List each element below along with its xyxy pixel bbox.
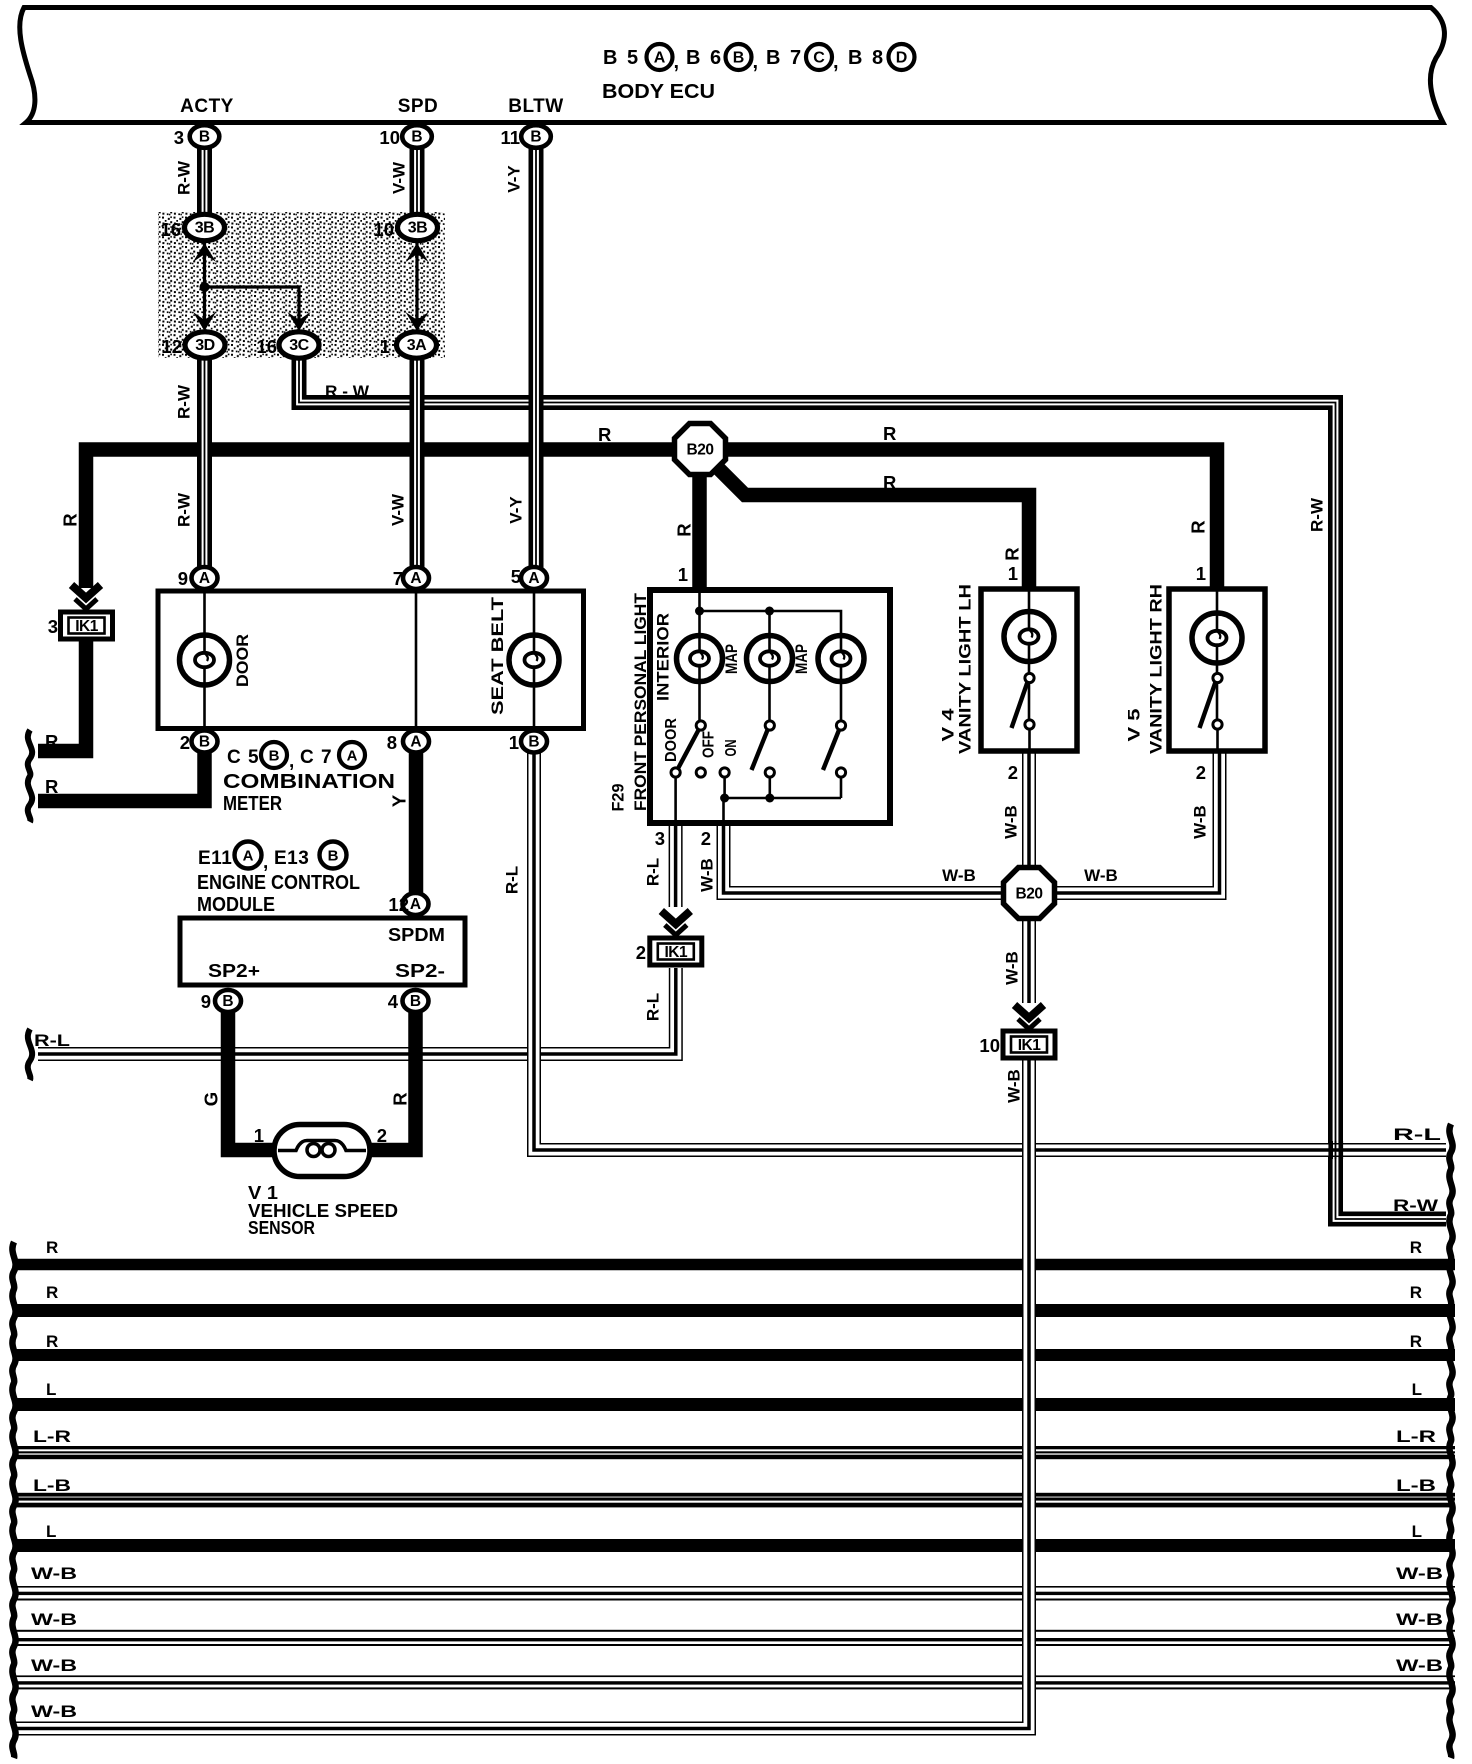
svg-text:,: , (753, 51, 759, 73)
vanity light RH box V5 (1169, 589, 1265, 751)
meter pin 9A (192, 567, 218, 589)
svg-text:OFF: OFF (701, 731, 718, 758)
svg-text:V-W: V-W (389, 493, 408, 526)
svg-text:SP2+: SP2+ (208, 961, 260, 981)
svg-text:R-W: R-W (175, 160, 194, 195)
svg-text:C: C (813, 50, 825, 67)
svg-text:V 1: V 1 (248, 1183, 278, 1203)
svg-text:L-R: L-R (1396, 1427, 1436, 1446)
svg-text:3B: 3B (195, 220, 214, 237)
svg-text:SENSOR: SENSOR (248, 1218, 315, 1238)
wire W-B from vanity RH pin 2 to B20 (1053, 748, 1220, 893)
svg-text:3D: 3D (195, 337, 214, 354)
svg-text:B: B (530, 129, 541, 146)
svg-text:MAP: MAP (722, 644, 741, 674)
connector 3B right (398, 214, 438, 240)
svg-text:A: A (410, 896, 421, 913)
svg-text:W-B: W-B (1002, 805, 1021, 839)
svg-text:W-B: W-B (1084, 866, 1118, 885)
svg-text:R-L: R-L (503, 866, 522, 894)
connector 3C (279, 332, 319, 358)
svg-text:L-B: L-B (33, 1476, 71, 1495)
svg-text:A: A (654, 50, 666, 67)
ECM pin 12A (403, 893, 429, 915)
svg-text:R-W: R-W (175, 384, 194, 419)
svg-text:DOOR: DOOR (663, 718, 680, 762)
switch DOOR/OFF/ON in F29 (696, 721, 705, 730)
relay block IK1 pin 3 (61, 612, 113, 639)
svg-text:G: G (201, 1092, 222, 1106)
svg-text:12: 12 (161, 336, 182, 357)
svg-text:3: 3 (655, 828, 665, 849)
svg-text:W-B: W-B (1003, 951, 1022, 985)
svg-text:3A: 3A (407, 337, 427, 354)
svg-text:B 7: B 7 (766, 47, 803, 69)
switch vanity LH (1025, 673, 1034, 682)
svg-text:16: 16 (160, 219, 181, 240)
svg-text:SPD: SPD (398, 96, 439, 117)
junction connector B20 lower (1004, 868, 1055, 919)
bus wire R 3 (15, 1349, 1455, 1361)
svg-text:SP2-: SP2- (395, 961, 445, 981)
thick wire R from ECM pin 4B to speed sensor pin 2 (366, 1010, 416, 1150)
svg-text:V 5: V 5 (1125, 709, 1144, 742)
svg-text:ENGINE CONTROL: ENGINE CONTROL (197, 872, 360, 894)
lamp SEAT BELT in combination meter (509, 635, 559, 685)
svg-text:A: A (347, 748, 358, 765)
svg-text:R: R (1410, 1283, 1422, 1302)
wire W-B from B20 through IK1(10) down and left to bottom edge (bus W-B 4) (1022, 916, 1036, 1003)
svg-text:R: R (598, 424, 611, 445)
svg-text:L: L (1412, 1522, 1422, 1541)
lamp MAP 1 (747, 636, 793, 682)
left edge cut mark at R-L exit (28, 1029, 32, 1080)
bus wire R 2 (15, 1304, 1455, 1317)
bus wire L 2 (15, 1539, 1455, 1552)
svg-text:W-B: W-B (1396, 1610, 1443, 1629)
svg-text:R: R (1410, 1238, 1422, 1257)
svg-text:C 5: C 5 (227, 747, 260, 768)
crossing patch R-W vertical at R-L (1328, 1141, 1333, 1159)
svg-text:7: 7 (393, 568, 403, 589)
svg-text:R-L: R-L (644, 858, 663, 886)
left edge cut marks bus area (12, 1242, 15, 1758)
meter pin 7A (403, 567, 429, 589)
wire V-W from connector 3A to combination meter pin 7A (410, 358, 425, 570)
svg-text:L-R: L-R (33, 1427, 71, 1446)
svg-text:3: 3 (174, 127, 184, 148)
svg-text:B: B (410, 993, 421, 1010)
svg-text:IK1: IK1 (664, 944, 688, 961)
svg-text:W-B: W-B (1191, 805, 1210, 839)
junction wire 3B to 3D with junction and branch to 3C (203, 240, 206, 318)
svg-text:R: R (46, 1283, 58, 1302)
bus wire L-R (15, 1446, 1455, 1449)
svg-text:16: 16 (256, 336, 277, 357)
svg-text:A: A (528, 570, 539, 587)
svg-text:1: 1 (509, 732, 519, 753)
bus wire W-B 2 (15, 1630, 1455, 1632)
bus wire W-B 3 (15, 1675, 1455, 1677)
svg-text:5: 5 (511, 566, 521, 587)
svg-text:R: R (883, 423, 896, 444)
svg-text:L: L (46, 1380, 56, 1399)
svg-text:F29: F29 (609, 784, 628, 812)
vehicle speed sensor V1 body (274, 1125, 370, 1177)
BODY ECU band (20, 8, 1445, 123)
svg-text:W-B: W-B (698, 858, 717, 892)
svg-text:R-L: R-L (34, 1031, 70, 1050)
wire R-L horizontal from left edge to IK1(2) (38, 968, 676, 1054)
svg-text:1: 1 (254, 1125, 264, 1146)
svg-text:10: 10 (373, 219, 394, 240)
svg-text:B: B (222, 993, 233, 1010)
stipple shading region (158, 212, 445, 358)
svg-text:SEAT BELT: SEAT BELT (488, 596, 507, 715)
svg-text:9: 9 (201, 991, 211, 1012)
wire V-Y from body ECU pin 11B to combination meter pin 5A (529, 145, 544, 570)
svg-text:3B: 3B (408, 220, 427, 237)
svg-text:8: 8 (387, 732, 397, 753)
svg-text:VANITY LIGHT RH: VANITY LIGHT RH (1147, 584, 1166, 754)
svg-text:FRONT PERSONAL LIGHT: FRONT PERSONAL LIGHT (631, 592, 650, 811)
svg-text:METER: METER (223, 793, 282, 815)
svg-text:2: 2 (1196, 762, 1206, 783)
arrow into IK1(3) (72, 585, 101, 598)
svg-text:R: R (1410, 1332, 1422, 1351)
svg-text:10: 10 (379, 127, 400, 148)
svg-text:ACTY: ACTY (180, 96, 234, 117)
front personal light box F29 (650, 590, 890, 823)
svg-text:A: A (243, 848, 254, 865)
svg-text:A: A (199, 570, 210, 587)
ECM pin 9B (215, 990, 241, 1012)
svg-text:R-L: R-L (644, 993, 663, 1021)
connector 10B body ECU SPD (402, 125, 432, 148)
svg-text:R: R (46, 1332, 58, 1351)
svg-text:COMBINATION: COMBINATION (223, 771, 395, 793)
wire R-L from front personal light pin 3 to IK1(2) (669, 822, 683, 907)
svg-text:4: 4 (388, 991, 399, 1012)
switch vanity RH (1213, 673, 1222, 682)
svg-text:L-B: L-B (1396, 1476, 1436, 1495)
connector 11B body ECU BLTW (521, 125, 551, 148)
svg-text:VANITY LIGHT LH: VANITY LIGHT LH (956, 584, 975, 754)
svg-text:B 6: B 6 (686, 47, 723, 69)
svg-text:,: , (833, 51, 839, 73)
thick wire R main horizontal with left drop to IK1 and right drop to vanity RH (86, 450, 1217, 592)
svg-text:R: R (390, 1092, 411, 1105)
svg-text:12: 12 (388, 894, 409, 915)
svg-text:R: R (60, 513, 81, 526)
svg-text:W-B: W-B (942, 866, 976, 885)
svg-text:SPDM: SPDM (388, 925, 445, 945)
svg-text:B 8: B 8 (848, 47, 885, 69)
svg-text:BLTW: BLTW (508, 96, 563, 117)
bus wire L 1 (15, 1398, 1455, 1411)
svg-text:1: 1 (380, 336, 390, 357)
relay block IK1 pin 10 (1003, 1031, 1055, 1058)
svg-text:W-B: W-B (31, 1610, 77, 1629)
thick wire G from ECM pin 9B to speed sensor pin 1 (228, 1010, 278, 1150)
engine control module box (180, 918, 465, 985)
svg-text:A: A (410, 570, 421, 587)
svg-text:B: B (269, 748, 280, 765)
svg-text:W-B: W-B (31, 1702, 77, 1721)
meter pin 1B (521, 731, 547, 753)
svg-text:W-B: W-B (1396, 1564, 1443, 1583)
svg-text:E11: E11 (198, 848, 232, 869)
lamp INTERIOR (677, 636, 723, 682)
svg-text:B: B (328, 848, 339, 865)
svg-text:E13: E13 (274, 848, 309, 869)
svg-text:R-W: R-W (175, 492, 194, 527)
svg-text:3: 3 (48, 616, 58, 637)
lamp DOOR in combination meter (180, 635, 230, 685)
meter pin 8A (403, 731, 429, 753)
bus wire W-B 1 (15, 1586, 1455, 1588)
svg-text:R: R (883, 472, 896, 493)
thick wire R from B20 diagonal branch to vanity light LH pin 1 (706, 456, 1029, 591)
connector 3B body ECU ACTY (190, 125, 220, 148)
wire R-W from connector 3C right across and down to right edge exit (299, 358, 1446, 1219)
svg-text:Y: Y (389, 794, 410, 807)
combination meter box (158, 591, 584, 729)
svg-text:A: A (410, 734, 421, 751)
svg-text:,: , (289, 751, 294, 772)
thick wire R from B20 down to front personal light pin 1 (692, 455, 707, 590)
connector 3D (185, 332, 225, 358)
svg-text:L: L (1412, 1380, 1422, 1399)
wire R-W from connector 3D to combination meter pin 9A (197, 358, 212, 570)
svg-text:R-W: R-W (1393, 1196, 1439, 1215)
svg-text:1: 1 (1196, 563, 1206, 584)
svg-text:V-W: V-W (390, 161, 409, 194)
svg-text:R-L: R-L (1393, 1125, 1441, 1144)
bus wire R 1 (15, 1259, 1455, 1271)
svg-text:B: B (733, 50, 745, 67)
meter pin 5A (521, 567, 547, 589)
junction connector B20 upper (675, 424, 726, 475)
svg-text:11: 11 (500, 127, 520, 148)
connector 3B instrument panel (185, 214, 225, 240)
svg-text:B20: B20 (1016, 886, 1043, 903)
svg-text:INTERIOR: INTERIOR (654, 613, 673, 701)
bus wire L-B (15, 1493, 1455, 1497)
wire V-W from body ECU pin 10B to connector 3B (410, 145, 425, 215)
svg-text:MODULE: MODULE (197, 894, 275, 916)
arrow into IK1(10) (1015, 1005, 1044, 1018)
svg-text:V-Y: V-Y (505, 165, 524, 193)
switch MAP2 in F29 (836, 721, 845, 730)
svg-text:2: 2 (180, 732, 190, 753)
switch MAP1 in F29 (765, 721, 774, 730)
wire R-L from meter pin 1B down and right to right edge exit (534, 750, 1446, 1150)
arrow into IK1(2) (661, 911, 690, 924)
svg-text:V-Y: V-Y (507, 496, 526, 524)
right edge cut marks (1449, 1124, 1452, 1758)
meter pin 2B (192, 731, 218, 753)
svg-text:9: 9 (178, 568, 188, 589)
svg-text:R-W: R-W (1308, 497, 1327, 532)
ECM pin 4B (403, 990, 429, 1012)
wire R-W from body ECU pin 3B to connector 3B (197, 145, 212, 215)
svg-text:1: 1 (678, 564, 688, 585)
svg-text:1: 1 (1008, 563, 1018, 584)
lamp vanity LH (1004, 612, 1054, 662)
svg-text:D: D (896, 50, 908, 67)
svg-text:ON: ON (723, 740, 740, 757)
svg-text:R: R (1188, 520, 1209, 533)
junction wire 3B to 3A (SPD) (415, 240, 418, 318)
svg-text:W-B: W-B (1396, 1656, 1443, 1675)
svg-text:B: B (199, 129, 210, 146)
svg-text:B: B (528, 734, 539, 751)
svg-text:,: , (674, 51, 680, 73)
svg-text:R: R (674, 523, 695, 536)
svg-text:IK1: IK1 (75, 618, 99, 635)
svg-text:R: R (45, 731, 58, 752)
svg-text:MAP: MAP (792, 644, 811, 674)
svg-text:C 7: C 7 (300, 747, 333, 768)
wire W-B from front personal light pin 2 to B20 (724, 822, 1006, 893)
svg-text:2: 2 (636, 942, 646, 963)
svg-text:2: 2 (1008, 762, 1018, 783)
relay block IK1 pin 2 (650, 938, 702, 965)
svg-text:3C: 3C (289, 337, 309, 354)
svg-text:BODY ECU: BODY ECU (602, 81, 715, 103)
thick wire R from IK1(3) down and out to left edge (38, 640, 86, 751)
svg-text:IK1: IK1 (1018, 1037, 1042, 1054)
left edge cut marks at R exits (28, 730, 32, 822)
svg-text:10: 10 (979, 1035, 1000, 1056)
svg-text:R: R (1002, 547, 1023, 560)
svg-text:W-B: W-B (1005, 1069, 1024, 1103)
thick wire Y from meter pin 8A to ECM pin 12A (409, 750, 424, 895)
svg-text:W-B: W-B (31, 1564, 77, 1583)
connector 3A (397, 332, 437, 358)
svg-text:DOOR: DOOR (233, 634, 252, 687)
svg-text:R: R (46, 1238, 58, 1257)
lamp MAP 2 (818, 636, 864, 682)
thick wire R from combination meter pin 2B out to left edge (38, 750, 205, 801)
svg-text:,: , (263, 852, 268, 873)
svg-text:2: 2 (701, 828, 711, 849)
svg-text:2: 2 (377, 1125, 387, 1146)
lamp vanity RH (1192, 613, 1242, 663)
vanity light LH box V4 (981, 589, 1077, 751)
svg-text:B: B (199, 734, 210, 751)
wire W-B from vanity LH pin 2 to B20 (1022, 748, 1036, 870)
svg-text:R: R (45, 776, 58, 797)
svg-text:W-B: W-B (31, 1656, 77, 1675)
svg-text:B: B (411, 129, 422, 146)
svg-text:R - W: R - W (325, 382, 370, 401)
svg-text:B 5: B 5 (603, 47, 640, 69)
svg-text:L: L (46, 1522, 56, 1541)
svg-text:B20: B20 (687, 442, 714, 459)
